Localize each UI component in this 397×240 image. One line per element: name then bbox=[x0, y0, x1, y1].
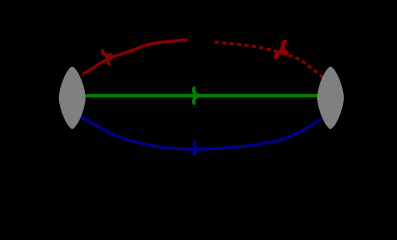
wire: red dashed edge (top-center label gap to right node) bbox=[215, 42, 325, 78]
wire: red solid edge (left node toward top-center label gap) bbox=[83, 40, 188, 75]
mid arrowhead on red dashed edge bbox=[274, 41, 291, 61]
node: left ellipse bbox=[59, 67, 86, 130]
node: right ellipse bbox=[317, 67, 344, 130]
mid arrowhead on red solid edge bbox=[101, 48, 114, 64]
wire: blue curved bottom edge bbox=[81, 117, 321, 149]
wire: green straight edge bbox=[86, 94, 318, 97]
mid arrowhead on green edge bbox=[193, 88, 200, 103]
graph diagram: two ellipse nodes, three colored edges bbox=[0, 0, 397, 156]
mid arrowhead on blue edge bbox=[193, 142, 201, 157]
